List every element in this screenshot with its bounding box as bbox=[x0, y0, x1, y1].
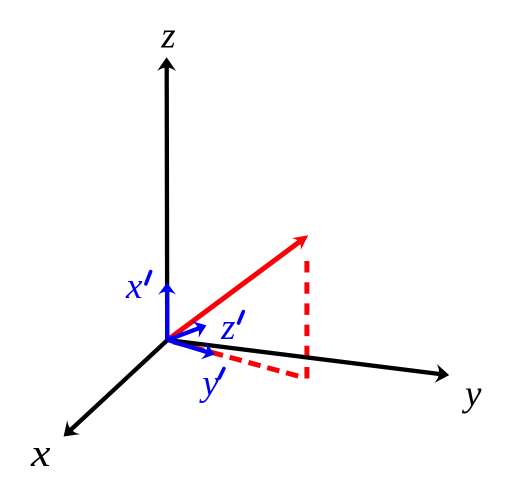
dashed red projection line (corner to origin) bbox=[168, 340, 305, 378]
blue z' axis bbox=[168, 317, 210, 340]
svg-text:x: x bbox=[30, 432, 51, 475]
y axis bbox=[168, 340, 451, 385]
dashed red vertical drop line bbox=[304, 257, 309, 379]
x axis bbox=[57, 340, 167, 444]
red vector r bbox=[168, 229, 313, 340]
svg-text:y: y bbox=[198, 363, 219, 404]
z axis bbox=[157, 57, 176, 340]
svg-text:z: z bbox=[160, 16, 175, 57]
blue y' axis bbox=[168, 340, 218, 363]
svg-text:x: x bbox=[125, 266, 143, 307]
svg-text:y: y bbox=[461, 374, 482, 415]
svg-text:z: z bbox=[220, 307, 235, 348]
blue x' axis bbox=[158, 283, 176, 340]
